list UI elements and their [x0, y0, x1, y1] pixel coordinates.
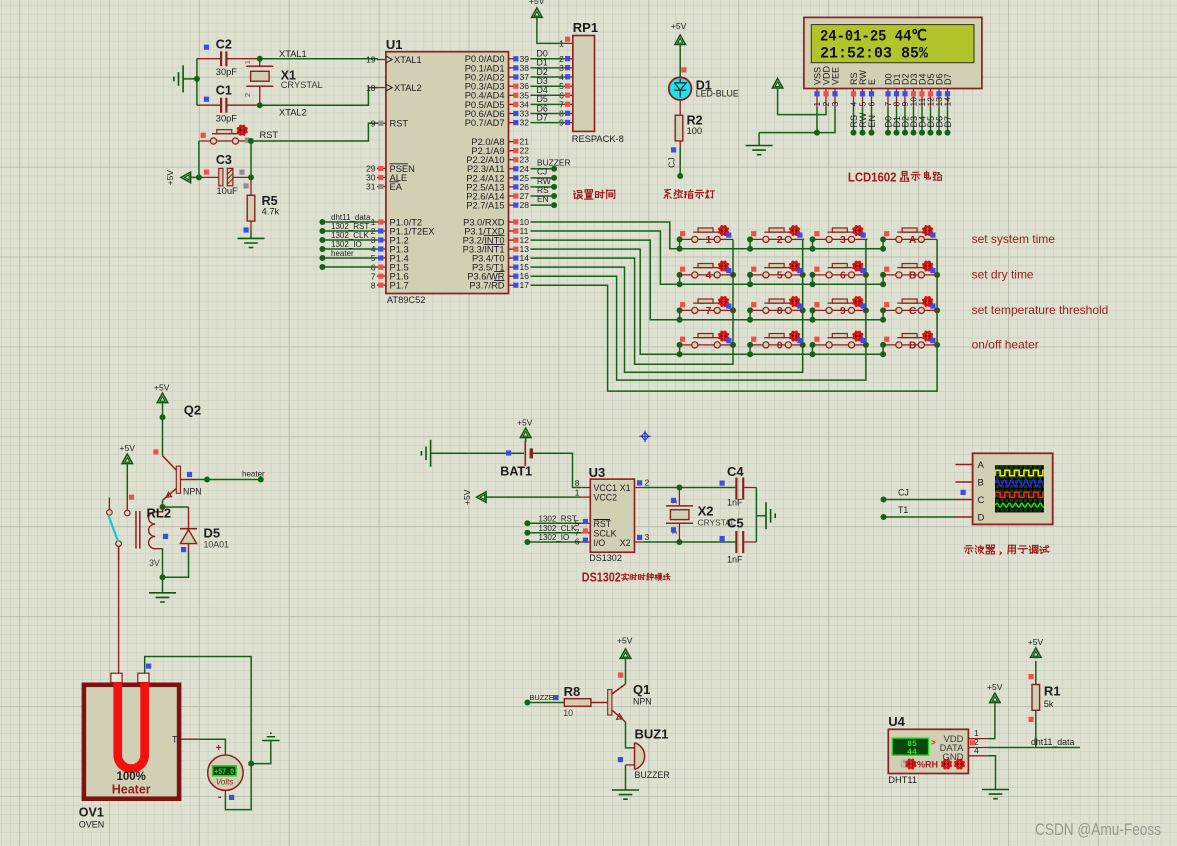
LCD pin 3 VEE: [830, 67, 840, 107]
svg-text:P0.7/AD7: P0.7/AD7: [465, 118, 505, 128]
wire U3 net 1302_IO pin 6: [524, 533, 590, 547]
U4 pin 1 VDD wire: [968, 703, 995, 738]
wire RST net: [199, 123, 378, 177]
svg-text:RESPACK-8: RESPACK-8: [572, 134, 624, 144]
svg-text:XTAL1: XTAL1: [394, 55, 422, 65]
svg-text:dht11_data: dht11_data: [331, 213, 371, 222]
push button keypad 8: [750, 296, 804, 317]
U1 pin 8 P1.7: [371, 280, 409, 290]
LCD pin 7 D0: [883, 73, 893, 106]
svg-text:XTAL2: XTAL2: [394, 83, 422, 93]
wire LCD net RW: [858, 107, 868, 136]
voltmeter: [199, 739, 252, 809]
svg-text:BUZZER: BUZZER: [635, 770, 670, 780]
wire LCD VDD to +5V: [778, 88, 826, 115]
U1 pin 7 P1.6: [371, 271, 409, 281]
svg-text:+5V: +5V: [462, 489, 472, 505]
svg-text:AT89C52: AT89C52: [387, 295, 426, 305]
wire keypad column 3 feed from P3.6: [531, 239, 866, 380]
wire relay coil to ground: [160, 548, 166, 580]
U1 pin 10 P3.0/RXD: [463, 217, 529, 227]
svg-text:D5: D5: [204, 526, 221, 541]
svg-text:Heater: Heater: [112, 783, 151, 797]
wire P1.2 net 1302_CLK: [319, 231, 377, 243]
U1 pin 34 P0.5/AD5: [465, 99, 530, 109]
svg-text:6: 6: [575, 537, 580, 547]
U1 pin 37 P0.2/AD2: [465, 72, 530, 82]
buzzer BUZ1: [618, 722, 670, 780]
svg-text:U4: U4: [888, 714, 905, 729]
RP1 pin 3 / wire D1: [531, 58, 573, 73]
svg-text:1nF: 1nF: [727, 555, 743, 565]
svg-text:RST: RST: [260, 130, 279, 140]
svg-text:D: D: [909, 340, 917, 352]
svg-text:EN: EN: [867, 115, 877, 128]
wire oven right terminal: [145, 657, 255, 767]
svg-text:3V: 3V: [149, 558, 160, 568]
svg-text:NPN: NPN: [183, 487, 202, 497]
svg-text:CJ: CJ: [667, 158, 677, 168]
U1 pin 33 P0.6/AD6: [465, 109, 530, 119]
svg-text:100%: 100%: [116, 771, 145, 783]
RP1 pin 4 / wire D2: [531, 67, 573, 82]
svg-text:C5: C5: [727, 516, 744, 531]
wire LCD net D2: [900, 107, 910, 136]
U1 pin 18 XTAL2: [366, 83, 422, 93]
wire P1.1 net 1302_RST: [319, 222, 377, 234]
svg-text:Volts: Volts: [216, 778, 234, 787]
svg-text:Q2: Q2: [184, 403, 201, 418]
svg-text:U3: U3: [589, 465, 606, 480]
power +5V (U4): [987, 682, 1003, 703]
power +5V (RP1): [529, 0, 563, 43]
U1 pin 39 P0.0/AD0: [465, 54, 530, 64]
U3 pin 1: [575, 487, 591, 497]
svg-text:3: 3: [830, 102, 840, 107]
wire LCD net EN: [867, 107, 877, 136]
svg-text:VEE: VEE: [830, 67, 840, 85]
U1 pin 30 ALE: [366, 173, 407, 183]
svg-text:+5V: +5V: [987, 682, 1003, 692]
wire LCD net D1: [892, 107, 902, 136]
push button keypad 7: [680, 296, 733, 317]
transistor Q1 NPN: [591, 682, 652, 722]
svg-text:set temperature threshold: set temperature threshold: [972, 303, 1109, 317]
U1 pin 19 XTAL1: [366, 55, 422, 65]
capacitor C5 1nF: [720, 516, 757, 565]
wire P2.5 net RW: [531, 176, 558, 190]
wire LCD net D4: [917, 107, 927, 136]
wire keypad row 2 feed from P3.1: [531, 231, 680, 284]
LCD pin 13 D6: [934, 73, 944, 106]
svg-text:SCLK: SCLK: [594, 529, 617, 539]
wire Q2 emitter to relay: [160, 500, 166, 512]
svg-text:DHT11: DHT11: [888, 775, 917, 785]
LCD pin 14 D7: [943, 73, 953, 106]
sensor U4 DHT11: [888, 714, 968, 785]
svg-text:XTAL2: XTAL2: [279, 108, 307, 118]
svg-text:VCC1: VCC1: [594, 483, 618, 493]
wire CJ net (scope C): [881, 488, 966, 503]
U1 pin 24 P2.3/A11: [467, 164, 529, 174]
svg-text:24-01-25 44℃: 24-01-25 44℃: [820, 27, 928, 45]
svg-text:LED-BLUE: LED-BLUE: [696, 89, 739, 99]
svg-text:U1: U1: [386, 37, 403, 52]
svg-text:C2: C2: [216, 38, 232, 52]
svg-text:10uF: 10uF: [217, 186, 239, 196]
wire keypad row 3 bus: [677, 307, 887, 322]
U1 pin 2 P1.1/T2EX: [371, 226, 435, 236]
RP1 pin 8 / wire D6: [531, 103, 573, 118]
U1 pin 32 P0.7/AD7: [465, 118, 530, 128]
LCD pin 4 RS: [849, 72, 859, 106]
push button keypad 6: [813, 260, 868, 281]
svg-text:DS1302: DS1302: [589, 553, 622, 563]
wire LCD VEE to ground: [817, 107, 835, 133]
wire LCD net D6: [934, 107, 944, 136]
wire keypad column 1 feed from P3.4: [531, 239, 734, 364]
svg-text:OVEN: OVEN: [79, 820, 105, 830]
U1 pin 1 P1.0/T2: [371, 217, 422, 227]
LCD pin 1 VSS: [812, 67, 822, 107]
svg-text:1302_RST: 1302_RST: [539, 514, 577, 523]
push button keypad 2: [750, 225, 804, 246]
capacitor C2: [197, 38, 260, 78]
svg-text:1nF: 1nF: [727, 498, 743, 508]
microcontroller U1 AT89C52: [386, 37, 509, 305]
power +5V (battery): [517, 418, 533, 443]
svg-text:2: 2: [670, 500, 679, 504]
svg-text:30pF: 30pF: [216, 67, 238, 77]
svg-text:3: 3: [645, 532, 650, 542]
svg-text:set dry time: set dry time: [972, 268, 1034, 282]
U1 pin 29 PSEN: [366, 164, 415, 174]
push button keypad 1: [680, 225, 733, 246]
svg-text:X1: X1: [620, 483, 631, 493]
svg-text:Q1: Q1: [633, 682, 650, 697]
RP1 pin 5 / wire D3: [531, 76, 573, 91]
U1 pin 11 P3.1/TXD: [464, 226, 528, 236]
oven pin T: [172, 735, 199, 745]
wire keypad column 2 feed from P3.5: [531, 239, 803, 372]
power +5V (reset): [165, 170, 199, 186]
svg-text:28: 28: [520, 200, 530, 210]
svg-text:B: B: [909, 270, 917, 282]
svg-text:VCC2: VCC2: [594, 493, 618, 503]
wire keypad row 1 feed from P3.0: [531, 222, 680, 249]
svg-text:T: T: [172, 735, 178, 745]
resistor R8 10: [563, 684, 591, 718]
U1 pin 27 P2.6/A14: [466, 191, 529, 201]
U1 pin 16 P3.6/WR: [467, 271, 529, 281]
svg-text:1302_IO: 1302_IO: [539, 533, 570, 542]
wire LCD VSS to ground: [759, 107, 820, 136]
svg-text:9: 9: [371, 119, 376, 129]
svg-text:heater: heater: [331, 249, 354, 258]
capacitor C1: [197, 83, 260, 123]
svg-text:>: >: [931, 738, 936, 747]
svg-text:+5V: +5V: [165, 170, 175, 186]
svg-text:+57.0: +57.0: [214, 768, 234, 777]
wire P1.5 net: [319, 264, 377, 270]
wire keypad row 3 feed from P3.2: [531, 240, 680, 320]
LCD pin 6 E: [867, 79, 877, 107]
U1 pin 23 P2.2/A10: [466, 155, 529, 165]
resistor R2 100: [675, 100, 702, 148]
svg-text:C: C: [909, 305, 917, 317]
svg-text:1302_RST: 1302_RST: [331, 222, 369, 231]
svg-text:3: 3: [840, 234, 846, 246]
svg-text:9: 9: [840, 305, 846, 317]
U1 pin 17 P3.7/RD: [469, 280, 529, 290]
push button keypad 5: [750, 260, 804, 281]
svg-text:6: 6: [840, 270, 846, 282]
resistor R5 4.7k: [244, 177, 280, 232]
svg-text:1302_CLK: 1302_CLK: [539, 524, 577, 533]
svg-text:P2.7/A15: P2.7/A15: [466, 201, 504, 211]
ground (R5): [238, 230, 265, 248]
svg-text:on/off heater: on/off heater: [972, 338, 1039, 352]
wire keypad row 4 bus: [677, 342, 887, 357]
oscilloscope: [956, 453, 1053, 524]
wire C4/C5 to ground: [756, 488, 766, 543]
svg-text:8: 8: [777, 305, 783, 317]
power +5V (D1): [671, 21, 687, 77]
svg-text:17: 17: [520, 280, 530, 290]
svg-text:4: 4: [706, 270, 712, 282]
svg-text:CSDN @Amu-Feoss: CSDN @Amu-Feoss: [1035, 820, 1161, 839]
svg-text:+5V: +5V: [671, 21, 687, 31]
keypad column 3 junctions: [863, 272, 869, 348]
resistor pack RP1 RESPACK-8: [572, 20, 624, 144]
annotation DS1302实时时钟模块: [582, 570, 670, 584]
wire P2.3 net BUZZER: [531, 158, 571, 172]
U3 pin 2 wire to X1: [635, 478, 737, 491]
wire keypad column 4 feed from P3.7: [531, 239, 938, 391]
svg-text:100: 100: [687, 126, 703, 136]
wire LCD net D7: [943, 107, 953, 136]
svg-text:XTAL1: XTAL1: [279, 49, 307, 59]
capacitor C4 1nF: [720, 464, 757, 508]
push button keypad 9: [813, 296, 868, 317]
svg-text:21:52:03 85%: 21:52:03 85%: [820, 44, 929, 62]
wire XTAL2 net: [257, 88, 378, 109]
svg-text:1: 1: [706, 234, 712, 246]
svg-text:0: 0: [777, 340, 783, 352]
keypad column 2 junctions: [800, 272, 806, 348]
svg-text:C4: C4: [727, 464, 744, 479]
svg-text:+5V: +5V: [154, 383, 170, 393]
wire CJ net (D1): [667, 147, 684, 179]
transistor Q2 NPN: [163, 403, 202, 501]
wire P2.7 net EN: [531, 194, 558, 208]
capacitor C3 10uF: [199, 153, 251, 196]
svg-text:BAT1: BAT1: [500, 465, 532, 479]
svg-text:GND: GND: [942, 752, 963, 763]
svg-text:EA: EA: [390, 182, 403, 192]
svg-text:-: -: [218, 791, 222, 803]
wire LCD net RS: [849, 107, 859, 136]
power +5V (LCD): [772, 78, 783, 88]
U1 pin 6 P1.5: [371, 262, 409, 272]
power +5V (Q2): [153, 383, 169, 456]
U3 pin 3 wire to X2: [635, 532, 737, 545]
svg-text:6: 6: [867, 102, 877, 107]
svg-text:heater: heater: [242, 470, 265, 479]
svg-text:BUZ1: BUZ1: [635, 727, 669, 742]
keypad column 4 junctions: [934, 272, 940, 348]
svg-text:D: D: [978, 512, 985, 523]
svg-text:C3: C3: [216, 153, 232, 167]
svg-text:CJ: CJ: [898, 488, 909, 498]
RTC U3 DS1302: [589, 465, 635, 563]
svg-text:RST: RST: [594, 519, 612, 529]
svg-text:%RH: %RH: [917, 760, 938, 770]
ground (battery): [421, 440, 430, 467]
annotation LCD1602显示电路: [848, 169, 942, 184]
svg-text:D7: D7: [943, 73, 953, 85]
LCD pin 2 VDD: [821, 65, 831, 106]
wire LCD net D5: [926, 107, 936, 136]
wire LCD net D0: [883, 107, 893, 136]
U3 pin 8: [575, 478, 591, 488]
crystal X2: [666, 488, 736, 543]
svg-text:2: 2: [645, 478, 650, 488]
wire relay to oven: [118, 546, 120, 673]
ground (crystal): [174, 65, 197, 92]
U1 pin 15 P3.5/T1: [472, 262, 529, 272]
U1 pin 31 EA: [366, 182, 403, 192]
svg-text:1: 1: [243, 60, 252, 64]
push button keypad A: [883, 225, 937, 246]
wire keypad row 1 bus: [677, 236, 887, 251]
svg-text:D7: D7: [943, 116, 953, 128]
node RST/C3 junction: [196, 141, 254, 180]
U1 pin 28 P2.7/A15: [466, 200, 529, 210]
U4 pin 4 GND wire: [968, 746, 995, 790]
U1 pin 5 P1.4: [371, 253, 409, 263]
wire heater net (Q2 base): [196, 470, 265, 483]
svg-text:2: 2: [243, 93, 252, 97]
wire P2.4 net CJ: [531, 167, 558, 181]
svg-text:R8: R8: [564, 684, 581, 699]
origin marker: [639, 431, 650, 443]
wire BUZZER net: [524, 693, 564, 706]
LCD pin 9 D2: [900, 73, 910, 106]
wire keypad row 2 bus: [677, 272, 887, 287]
svg-text:A: A: [978, 460, 985, 471]
svg-text:14: 14: [943, 97, 953, 107]
svg-text:+5V: +5V: [517, 418, 533, 428]
power +5V (relay contact): [120, 443, 136, 510]
U1 pin 13 P3.3/INT1: [463, 244, 530, 254]
U1 pin 22 P2.1/A9: [471, 146, 529, 156]
svg-text:B: B: [978, 477, 984, 488]
svg-text:X2: X2: [620, 538, 631, 548]
svg-text:NPN: NPN: [633, 697, 652, 707]
oven OV1: [79, 673, 179, 829]
U1 pin 35 P0.4/AD4: [465, 90, 530, 100]
svg-text:E: E: [867, 79, 877, 85]
RP1 pin 2 / wire D0: [531, 49, 573, 64]
U4 pin 2 DATA wire dht11_data: [968, 737, 1080, 748]
wire keypad row 4 feed from P3.3: [531, 249, 680, 354]
svg-text:set system time: set system time: [972, 232, 1056, 246]
svg-text:D7: D7: [537, 112, 548, 122]
wire P1.3 net 1302_IO: [319, 240, 377, 252]
svg-text:30pF: 30pF: [216, 114, 238, 124]
push button keypad B: [883, 260, 937, 281]
push button keypad 3: [813, 225, 868, 246]
wire P1.4 net heater: [319, 249, 377, 261]
svg-text:18: 18: [366, 83, 376, 93]
push button keypad 0: [750, 330, 804, 351]
svg-text:dht11_data: dht11_data: [1031, 737, 1074, 747]
U1 pin 12 P3.2/INT0: [463, 235, 530, 245]
svg-text:8: 8: [371, 280, 376, 290]
LCD pin 11 D4: [917, 73, 927, 106]
U1 pin 21 P2.0/A8: [471, 137, 529, 147]
LCD LCD1602 module: [804, 17, 982, 88]
svg-text:P1.7: P1.7: [390, 281, 409, 291]
push button keypad 4: [680, 260, 733, 281]
U1 pin 14 P3.4/T0: [472, 253, 529, 263]
svg-text:5k: 5k: [1044, 699, 1054, 709]
svg-text:C: C: [978, 495, 985, 506]
svg-text:4.7k: 4.7k: [262, 207, 280, 217]
RP1 pin 6 / wire D4: [531, 85, 573, 100]
U1 pin 36 P0.3/AD3: [465, 81, 530, 91]
keypad column 1 junctions: [730, 272, 736, 348]
ground (U4): [982, 790, 1009, 799]
U1 pin 25 P2.4/A12: [466, 173, 529, 183]
ground (relay): [149, 577, 176, 602]
wire P1.0 net dht11_data: [319, 213, 377, 225]
push button keypad r4c1: [680, 330, 733, 348]
LCD pin 12 D5: [926, 73, 936, 106]
svg-text:4: 4: [974, 746, 979, 756]
annotation 设置时间: [574, 190, 615, 199]
wire XTAL1 net: [194, 56, 378, 105]
svg-text:5: 5: [777, 270, 783, 282]
svg-text:X2: X2: [698, 504, 714, 519]
svg-text:1: 1: [575, 487, 580, 497]
svg-text:19: 19: [366, 55, 376, 65]
svg-text:CRYSTAL: CRYSTAL: [281, 80, 323, 90]
ground (C4/C5): [766, 502, 775, 529]
svg-text:T1: T1: [898, 505, 908, 515]
svg-text:10A01: 10A01: [204, 540, 230, 550]
svg-text:C1: C1: [216, 83, 232, 97]
svg-text:I/O: I/O: [594, 538, 606, 548]
svg-text:+5V: +5V: [120, 443, 136, 453]
LED D1 LED-BLUE: [669, 77, 739, 100]
push button RESET: [199, 125, 251, 144]
annotation 示波器，用于调试: [964, 545, 1049, 555]
svg-text:1302_IO: 1302_IO: [331, 240, 362, 249]
svg-text:+5V: +5V: [1028, 637, 1044, 647]
U1 pin 38 P0.1/AD1: [465, 63, 530, 73]
svg-text:R1: R1: [1044, 684, 1061, 699]
svg-text:EN: EN: [537, 194, 549, 204]
wire LCD net D3: [909, 107, 919, 136]
wire T1 net (scope D): [881, 505, 956, 520]
ground (voltmeter): [251, 733, 279, 763]
U1 pin 3 P1.2: [371, 235, 409, 245]
svg-text:1: 1: [670, 531, 679, 535]
power +5V (U3 VCC2): [462, 489, 581, 505]
svg-text:OV1: OV1: [79, 806, 104, 820]
